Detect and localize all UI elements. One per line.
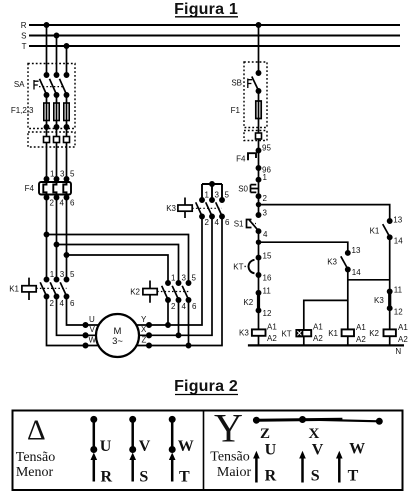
node 16: [256, 273, 260, 277]
contactor K2 coil actuator: [149, 281, 151, 303]
svg-text:6: 6: [225, 218, 230, 227]
node 11 right: [388, 289, 392, 293]
terminal square pole2: [54, 137, 60, 143]
node tap pole3: [64, 253, 68, 257]
contactor K1 pole1 contact: [44, 277, 48, 281]
svg-text:X: X: [141, 325, 147, 334]
motor terminal Z: [147, 343, 151, 347]
svg-text:W: W: [349, 440, 365, 457]
node 11 main: [256, 291, 260, 295]
svg-text:15: 15: [263, 252, 272, 261]
delta phase arrow S: [131, 458, 134, 482]
wire tap pole1 to K2 pole5: [47, 235, 189, 284]
motor terminal U: [83, 323, 87, 327]
svg-text:F4: F4: [236, 155, 246, 164]
svg-text:S: S: [21, 32, 26, 41]
timer contact KT: [249, 260, 255, 274]
node 4: [256, 229, 260, 233]
wire tap pole2 to K2 pole3: [57, 245, 179, 284]
svg-text:V: V: [312, 441, 324, 458]
node 12 main: [256, 308, 260, 312]
svg-text:SB: SB: [231, 79, 242, 88]
svg-text:4: 4: [60, 199, 65, 208]
contactor K3 coil actuator: [184, 198, 186, 219]
SA fuse-terminal dashed enclosure: [28, 132, 75, 147]
coil K2: [384, 329, 396, 336]
wire K1 contact down: [389, 237, 391, 291]
node 2: [256, 194, 260, 198]
svg-text:V: V: [139, 438, 151, 455]
bus R: [29, 24, 400, 26]
svg-text:S: S: [139, 469, 148, 486]
node R tap: [44, 23, 48, 27]
svg-text:16: 16: [263, 273, 272, 282]
svg-text:2: 2: [50, 299, 55, 308]
K2 mechanical linkage: [157, 291, 188, 293]
terminal square pole3: [64, 137, 70, 143]
svg-text:Z: Z: [260, 426, 270, 442]
svg-text:R: R: [101, 469, 113, 486]
delta winding U: [91, 416, 97, 422]
svg-text:1: 1: [205, 191, 210, 200]
svg-text:T: T: [22, 42, 27, 51]
svg-text:2: 2: [171, 302, 176, 311]
svg-text:Δ: Δ: [27, 415, 46, 447]
delta phase arrow T: [171, 458, 174, 482]
node 95: [256, 148, 260, 152]
wire K1 pole2 to motor V: [57, 297, 111, 336]
svg-text:13: 13: [352, 246, 361, 255]
wire motor Z to K3 pole3: [125, 217, 222, 346]
node tap pole1: [44, 232, 48, 236]
delta winding W: [169, 416, 175, 422]
contactor K3 pole1 contact: [200, 198, 204, 202]
wire pole1 upper (R drop): [46, 25, 48, 280]
wire control drop: [258, 25, 260, 329]
svg-text:A2: A2: [313, 334, 323, 343]
svg-text:2: 2: [50, 199, 55, 208]
fuse F1: [256, 101, 261, 119]
contactor K1 pole2 contact: [54, 277, 58, 281]
svg-text:K1: K1: [328, 329, 338, 338]
wire K3 contact to K1 coil: [347, 270, 349, 330]
wire branch3 cross link: [348, 279, 390, 281]
node X: [300, 417, 306, 423]
node pole3 fuse bottom: [64, 125, 68, 129]
svg-text:K1: K1: [370, 226, 380, 235]
svg-text:4: 4: [263, 230, 268, 239]
svg-text:6: 6: [70, 199, 75, 208]
wire pole2 upper (S drop): [56, 36, 58, 280]
star bridge: [256, 419, 342, 420]
Y phase arrow R: [255, 457, 258, 483]
contactor K1 coil actuator: [28, 278, 30, 300]
node F4 in pole3: [64, 177, 68, 181]
node F4 out pole1: [44, 195, 48, 199]
F4 heater element pole2: [53, 182, 56, 195]
svg-text:SA: SA: [14, 80, 25, 89]
wire tap pole3 to K2 pole1: [67, 255, 169, 283]
svg-text:K3: K3: [239, 329, 249, 338]
svg-text:3: 3: [215, 191, 220, 200]
svg-text:14: 14: [394, 236, 403, 245]
switch SB contact: [256, 71, 260, 75]
wire K3 coil to rail: [258, 336, 260, 346]
svg-text:Tensão: Tensão: [210, 450, 249, 465]
node T tap: [64, 44, 68, 48]
wire branch to K1 contact: [259, 205, 390, 221]
node F4 out pole3: [64, 195, 68, 199]
svg-text:A1: A1: [356, 323, 366, 332]
svg-text:W: W: [89, 336, 97, 345]
switch SA pole 3 contact: [64, 73, 68, 77]
svg-text:5: 5: [192, 274, 197, 283]
svg-text:KT: KT: [233, 262, 243, 271]
Y phase arrow S: [301, 457, 304, 483]
svg-text:N: N: [395, 347, 401, 356]
node pole1 fuse bottom: [44, 125, 48, 129]
SA mechanical linkage: [39, 86, 64, 88]
svg-text:A2: A2: [267, 334, 277, 343]
terminal square control: [256, 133, 262, 139]
wire motor Y to K3 pole1: [125, 217, 202, 326]
svg-text:Tensão: Tensão: [16, 450, 55, 465]
pushbutton S0: [251, 185, 259, 193]
contactor K2 pole3 contact: [176, 281, 180, 285]
node 12 right: [388, 306, 392, 310]
svg-text:Menor: Menor: [16, 465, 54, 480]
wire to K2 coil: [389, 308, 391, 329]
svg-text:A1: A1: [398, 323, 408, 332]
svg-text:A1: A1: [267, 322, 277, 331]
svg-text:2: 2: [205, 218, 210, 227]
node 96: [256, 166, 260, 170]
svg-text:3~: 3~: [112, 336, 123, 347]
node 3: [256, 213, 260, 217]
node pole2 fuse bottom: [54, 125, 58, 129]
svg-text:K2: K2: [243, 298, 253, 307]
svg-text:5: 5: [225, 191, 230, 200]
SA manual actuator symbol: [34, 80, 39, 90]
node K2-Y junction: [166, 323, 170, 327]
svg-text:T: T: [348, 468, 359, 485]
svg-text:3: 3: [263, 208, 268, 217]
disconnect switch SA dashed enclosure: [28, 64, 75, 129]
svg-text:K3: K3: [374, 296, 384, 305]
svg-text:A2: A2: [398, 335, 408, 344]
svg-text:Figura 1: Figura 1: [174, 1, 238, 18]
wire K2 pole3 out: [178, 300, 180, 335]
figure 2 divider: [203, 411, 205, 491]
coil K3: [252, 329, 266, 335]
contactor K2 pole1 contact: [166, 281, 170, 285]
rail N: [248, 344, 404, 346]
svg-text:4: 4: [215, 218, 220, 227]
svg-text:U: U: [100, 438, 112, 455]
node S tap: [54, 33, 58, 37]
delta phase arrow R: [93, 458, 96, 482]
svg-text:2: 2: [263, 194, 268, 203]
NO contact K1: [388, 219, 392, 223]
svg-text:K1: K1: [9, 284, 19, 293]
coil K1: [342, 329, 354, 336]
pushbutton S1: [247, 220, 252, 228]
contactor K1 pole3 contact: [64, 277, 68, 281]
svg-text:1: 1: [263, 173, 268, 182]
svg-text:R: R: [21, 21, 27, 30]
svg-text:W: W: [178, 438, 194, 455]
figure 2 frame: [13, 411, 403, 491]
svg-text:F4: F4: [25, 184, 35, 193]
svg-text:V: V: [90, 325, 96, 334]
coil KT: [303, 336, 305, 345]
NO contact K3 (seal-in): [346, 251, 350, 255]
switch SB dashed enclosure: [244, 62, 267, 128]
node K3 bus center: [210, 182, 214, 186]
svg-text:4: 4: [60, 299, 65, 308]
svg-text:13: 13: [393, 215, 402, 224]
K1 mechanical linkage: [36, 287, 66, 289]
svg-text:A1: A1: [313, 323, 323, 332]
motor terminal Y: [147, 323, 151, 327]
svg-text:11: 11: [263, 287, 272, 296]
svg-text:11: 11: [394, 285, 403, 294]
terminal square pole1: [44, 137, 50, 143]
svg-text:Y: Y: [214, 406, 243, 451]
svg-text:K2: K2: [130, 288, 140, 297]
wire pole3 upper (T drop): [66, 46, 68, 280]
svg-text:12: 12: [394, 308, 403, 317]
svg-text:5: 5: [70, 170, 75, 179]
svg-text:95: 95: [262, 144, 271, 153]
svg-text:F1,2,3: F1,2,3: [11, 106, 34, 115]
svg-text:U: U: [265, 441, 277, 458]
node branch1: [257, 203, 261, 207]
contactor K2 pole5 contact: [186, 281, 190, 285]
node K2-X junction: [176, 333, 180, 337]
fuse F2 (pole2): [54, 103, 59, 121]
svg-text:4: 4: [182, 302, 187, 311]
motor terminal V: [83, 333, 87, 337]
svg-text:KT: KT: [281, 329, 291, 338]
svg-text:S0: S0: [238, 184, 248, 193]
motor terminal W: [83, 343, 87, 347]
svg-text:R: R: [265, 468, 277, 485]
svg-text:1: 1: [50, 270, 55, 279]
svg-text:Maior: Maior: [217, 465, 252, 480]
svg-text:6: 6: [192, 302, 197, 311]
svg-text:Z: Z: [142, 336, 147, 345]
NC contact K2: [257, 293, 260, 311]
bus S: [29, 34, 400, 36]
wire K1 pole3 to motor U: [67, 297, 111, 326]
delta winding V: [130, 416, 136, 422]
svg-text:12: 12: [263, 309, 272, 318]
svg-text:X: X: [309, 426, 320, 442]
node tap pole2: [54, 242, 58, 246]
motor M circle: [96, 314, 139, 357]
svg-text:5: 5: [70, 270, 75, 279]
svg-text:Figura 2: Figura 2: [174, 378, 238, 395]
wire K2 pole1 out: [167, 300, 169, 325]
fuse F1 (pole1): [44, 103, 49, 121]
node F4 in pole2: [54, 177, 58, 181]
svg-text:K2: K2: [369, 329, 379, 338]
SB manual actuator symbol: [248, 79, 252, 89]
node 15: [256, 256, 260, 260]
node F4 in pole1: [44, 177, 48, 181]
wire branch to K3 contact: [259, 242, 348, 253]
svg-text:Y: Y: [141, 315, 147, 324]
contactor K3 pole2 contact: [210, 198, 214, 202]
svg-text:S1: S1: [234, 219, 244, 228]
contactor K3 pole3 contact: [220, 198, 224, 202]
K3 mechanical linkage: [192, 207, 222, 209]
node F4 out pole2: [54, 195, 58, 199]
wire motor X to K3 pole2: [125, 217, 212, 336]
overload contact F4: [248, 153, 256, 160]
svg-text:A2: A2: [356, 335, 366, 344]
node control tap on R: [256, 23, 260, 27]
F4 heater element pole3: [63, 182, 66, 195]
bus T: [29, 45, 400, 47]
contactor K3 star bridge bus: [202, 184, 222, 200]
svg-text:U: U: [89, 315, 95, 324]
svg-text:14: 14: [352, 268, 361, 277]
svg-text:1: 1: [171, 274, 176, 283]
svg-text:S: S: [311, 468, 320, 485]
F4 heater element pole1: [43, 182, 46, 195]
node 1: [256, 178, 260, 182]
overload relay F4 box: [39, 182, 71, 195]
svg-text:3: 3: [60, 270, 65, 279]
node K2-Z junction: [186, 343, 190, 347]
svg-text:K3: K3: [166, 204, 176, 213]
SB fuse-terminal dashed enclosure: [244, 131, 267, 141]
fuse F3 (pole3): [64, 103, 69, 121]
node Z: [253, 417, 259, 423]
node branch2: [257, 240, 261, 244]
switch SA pole 2 contact: [54, 73, 58, 77]
NC contact K3: [388, 292, 391, 309]
wire K1 pole1 to motor W: [47, 297, 111, 346]
svg-text:K3: K3: [327, 257, 337, 266]
svg-text:3: 3: [182, 274, 187, 283]
motor terminal X: [147, 333, 151, 337]
node Y-end: [376, 418, 382, 424]
wire K2 pole5 out: [188, 300, 190, 346]
svg-text:6: 6: [70, 299, 75, 308]
Y phase arrow T: [338, 457, 341, 483]
svg-text:T: T: [179, 469, 190, 486]
switch SA pole 1 contact: [44, 73, 48, 77]
svg-text:F1: F1: [231, 106, 241, 115]
